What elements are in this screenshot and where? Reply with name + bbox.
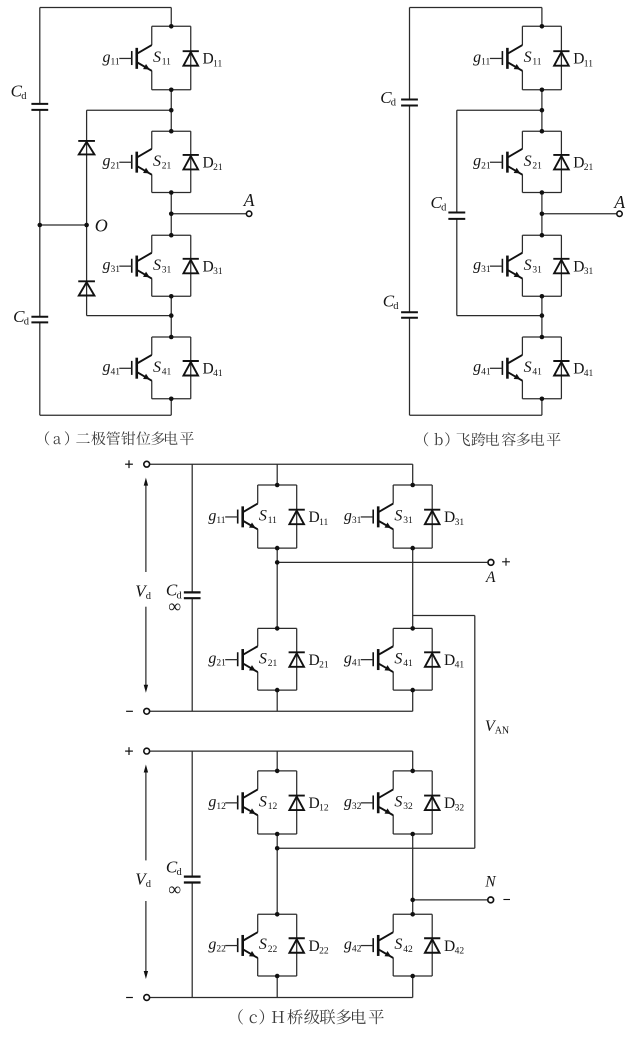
wire: (c) upper top rail: [149, 463, 412, 465]
svg-text:11: 11: [532, 58, 541, 68]
svg-text:D: D: [573, 154, 584, 171]
label infinity lower bridge: [168, 879, 181, 899]
wire: (b) top rail: [410, 7, 542, 9]
svg-text:S: S: [259, 508, 267, 525]
label S21: [259, 650, 278, 669]
diode D31: [424, 510, 440, 525]
svg-text:d: d: [441, 202, 447, 213]
caption (b): [424, 432, 561, 446]
svg-text:D: D: [444, 795, 455, 812]
transistor S41 (IGBT): [490, 355, 523, 381]
wire: module S32 frame: [393, 771, 432, 834]
svg-text:D: D: [203, 51, 214, 68]
label g12 gate: [208, 793, 226, 812]
diode clamp upper (a): [78, 141, 95, 155]
transistor S21 (IGBT): [490, 149, 523, 175]
label Cd flying (b): [431, 193, 448, 214]
label g11 gate: [208, 507, 225, 526]
svg-text:12: 12: [216, 802, 226, 812]
svg-text:41: 41: [352, 659, 362, 669]
node: S11 collector junction: [275, 483, 280, 488]
label g31 gate: [102, 257, 120, 276]
label + upper: [125, 460, 133, 468]
svg-text:A: A: [243, 190, 255, 210]
svg-text:g: g: [473, 49, 481, 66]
transistor S32 (IGBT): [361, 789, 394, 815]
transistor S11 (IGBT): [225, 504, 258, 530]
svg-text:D: D: [309, 795, 320, 812]
label A (c): [485, 569, 496, 586]
svg-text:D: D: [444, 938, 455, 955]
label g32 gate: [344, 793, 362, 812]
diode D42: [424, 938, 440, 953]
svg-text:g: g: [102, 153, 110, 170]
wire: module S11 frame: [258, 485, 297, 548]
node: S22 collector junction: [275, 912, 280, 917]
label - at N: [503, 899, 510, 901]
wire: (a) left DC bus: [39, 8, 41, 416]
node: S21 emitter junction: [540, 190, 545, 195]
node: upper-left midpoint junction: [275, 560, 280, 565]
svg-text:31: 31: [352, 516, 362, 526]
svg-text:41: 41: [110, 367, 120, 377]
node: S41 emitter junction: [410, 688, 415, 693]
transistor S12 (IGBT): [225, 789, 258, 815]
wire: (a) phase leg interconnects: [170, 8, 172, 416]
diode D11: [289, 510, 305, 525]
transistor S31 (IGBT): [361, 504, 394, 530]
wire: flying-capacitor branch vertical: [456, 110, 458, 315]
wire: (c) upper left leg interconnects: [276, 464, 278, 711]
transistor S31 (IGBT): [490, 253, 523, 279]
svg-text:42: 42: [455, 946, 465, 956]
svg-text:g: g: [344, 507, 352, 524]
capacitor Cd lower (a): [31, 317, 48, 323]
node: S21 collector junction: [275, 626, 280, 631]
svg-text:32: 32: [455, 804, 465, 814]
label Cd lower (a): [13, 307, 30, 328]
wire: flying branch top link: [457, 109, 542, 111]
svg-text:D: D: [573, 258, 584, 275]
capacitor Cd upper (a): [31, 104, 48, 110]
svg-text:21: 21: [319, 660, 329, 670]
svg-text:11: 11: [481, 57, 490, 67]
svg-text:21: 21: [481, 161, 491, 171]
label D21: [573, 154, 593, 173]
svg-text:D: D: [203, 258, 214, 275]
wire: (c) upper DC-link bus: [191, 464, 193, 711]
svg-text:g: g: [473, 257, 481, 274]
svg-text:21: 21: [268, 659, 278, 669]
svg-text:42: 42: [352, 945, 362, 955]
svg-text:d: d: [24, 317, 30, 328]
label g42 gate: [344, 936, 362, 955]
label S21: [153, 153, 172, 172]
label Cd lower (b): [383, 291, 400, 312]
wire: (b) bottom rail: [410, 414, 542, 416]
label S41: [394, 650, 413, 669]
label g31 gate: [473, 257, 491, 276]
diode D21: [183, 155, 199, 170]
label D32: [444, 795, 464, 814]
node: S21 collector junction: [540, 129, 545, 134]
svg-text:S: S: [153, 359, 161, 376]
transistor S22 (IGBT): [225, 932, 258, 958]
label g11 gate: [473, 49, 490, 68]
capacitor Cd lower bridge: [184, 877, 201, 883]
wire: (b) left DC bus: [409, 8, 411, 416]
svg-text:41: 41: [455, 660, 465, 670]
label D11: [309, 509, 329, 528]
wire: VAN link upper-right leg to lower bridge: [413, 616, 475, 849]
svg-text:21: 21: [532, 161, 542, 171]
diode D11: [183, 51, 199, 66]
node: O on clamp branch: [84, 223, 89, 228]
node: S42 emitter junction: [410, 974, 415, 979]
svg-text:21: 21: [216, 659, 226, 669]
diode D41: [424, 652, 440, 667]
transistor S31 (IGBT): [119, 253, 152, 279]
label D42: [444, 938, 464, 957]
svg-text:d: d: [393, 301, 399, 312]
label D21: [309, 652, 329, 671]
svg-text:21: 21: [162, 161, 172, 171]
label g22 gate: [208, 936, 226, 955]
node: S31 collector junction: [540, 233, 545, 238]
node: S41 collector junction: [410, 626, 415, 631]
svg-text:11: 11: [213, 59, 222, 69]
wire: module S21 frame: [258, 628, 297, 690]
svg-text:31: 31: [584, 267, 594, 277]
label S42: [394, 936, 413, 955]
svg-text:11: 11: [584, 59, 593, 69]
label D31: [573, 258, 593, 277]
wire: phase A output (a): [171, 213, 246, 215]
terminal - lower bridge: [144, 995, 150, 1001]
diode D31: [183, 259, 199, 274]
node: S32 emitter junction: [410, 832, 415, 837]
node: flying bottom junction: [540, 313, 545, 318]
wire: clamp top link: [87, 109, 172, 111]
label - upper: [126, 710, 133, 712]
svg-text:11: 11: [162, 58, 171, 68]
label S12: [259, 793, 278, 812]
svg-text:31: 31: [213, 267, 223, 277]
svg-text:31: 31: [532, 265, 542, 275]
wire: (c) lower-left leg midpoint link to VAN: [277, 847, 475, 849]
label Cd upper bridge: [166, 581, 183, 602]
svg-text:S: S: [394, 936, 402, 953]
capacitor Cd upper (b): [401, 100, 418, 106]
svg-text:S: S: [394, 508, 402, 525]
wire: flying branch bottom link: [457, 315, 542, 317]
svg-text:g: g: [473, 153, 481, 170]
node: S12 emitter junction: [275, 832, 280, 837]
svg-text:S: S: [524, 49, 532, 66]
svg-text:S: S: [524, 153, 532, 170]
node: S41 collector junction: [169, 335, 174, 340]
svg-text:41: 41: [213, 369, 223, 379]
label S32: [394, 793, 413, 812]
label D31: [203, 258, 223, 277]
terminal A (b): [617, 211, 622, 216]
wire: (c) lower DC-link bus: [191, 751, 193, 997]
svg-text:31: 31: [403, 516, 413, 526]
wire: (a) top rail: [40, 7, 171, 9]
label g41 gate: [102, 359, 120, 378]
label S11: [259, 508, 277, 527]
capacitor Cd upper bridge: [184, 592, 201, 598]
diode D32: [424, 796, 440, 811]
terminal A (a): [246, 211, 251, 216]
diode D11: [553, 51, 569, 66]
transistor S11 (IGBT): [490, 45, 523, 71]
label D41: [573, 361, 593, 380]
node: lower-left midpoint junction: [275, 846, 280, 851]
svg-text:g: g: [344, 936, 352, 953]
label g41 gate: [473, 359, 491, 378]
svg-text:22: 22: [216, 945, 226, 955]
node: S41 emitter junction: [540, 397, 545, 402]
diode D31: [553, 259, 569, 274]
node: S21 collector junction: [169, 129, 174, 134]
wire: clamp bottom link: [87, 315, 172, 317]
label g21 gate: [102, 153, 120, 172]
node: S31 emitter junction: [410, 546, 415, 551]
svg-text:41: 41: [162, 368, 172, 378]
svg-text:22: 22: [319, 946, 329, 956]
label S11: [153, 49, 171, 68]
node: S41 emitter junction: [169, 397, 174, 402]
svg-text:d: d: [391, 98, 397, 109]
svg-text:D: D: [573, 51, 584, 68]
node: N junction: [410, 898, 415, 903]
label g21 gate: [473, 153, 491, 172]
wire: (c) lower left leg interconnects: [276, 751, 278, 997]
wire: (c) lower right leg interconnects: [412, 751, 414, 997]
svg-text:12: 12: [319, 804, 329, 814]
transistor S21 (IGBT): [225, 646, 258, 672]
label + lower: [125, 747, 133, 755]
svg-text:g: g: [102, 49, 110, 66]
svg-text:S: S: [259, 793, 267, 810]
diode D21: [553, 155, 569, 170]
node: flying top junction: [540, 108, 545, 113]
transistor S42 (IGBT): [361, 932, 394, 958]
svg-text:g: g: [473, 359, 481, 376]
node: S21 emitter junction: [275, 688, 280, 693]
svg-text:S: S: [153, 257, 161, 274]
diode clamp lower (a): [78, 281, 95, 295]
wire: module S41 frame: [152, 337, 191, 399]
node: S11 emitter junction: [540, 88, 545, 93]
svg-text:d: d: [146, 591, 152, 602]
source arrow Vd lower: [144, 765, 148, 980]
label N: [484, 874, 497, 891]
label Vd upper: [135, 581, 152, 602]
svg-text:S: S: [259, 936, 267, 953]
label S31: [394, 508, 413, 527]
svg-text:D: D: [444, 652, 455, 669]
svg-text:21: 21: [213, 163, 223, 173]
wire: (a) bottom rail: [40, 414, 171, 416]
label infinity upper bridge: [168, 596, 181, 616]
node: clamp top junction: [169, 108, 174, 113]
label S31: [153, 257, 172, 276]
label - lower: [126, 997, 133, 999]
svg-text:21: 21: [584, 163, 594, 173]
diode D41: [183, 361, 199, 376]
wire: (c) lower bottom rail: [149, 997, 412, 999]
svg-text:g: g: [208, 936, 216, 953]
svg-text:A: A: [613, 192, 625, 212]
svg-text:N: N: [484, 874, 497, 891]
caption (c): [238, 1009, 384, 1024]
label Cd lower bridge: [166, 858, 183, 879]
svg-text:11: 11: [268, 516, 277, 526]
node: S12 collector junction: [275, 769, 280, 774]
svg-text:S: S: [524, 257, 532, 274]
wire: (c) upper bottom rail: [149, 710, 412, 712]
label S22: [259, 936, 278, 955]
svg-text:11: 11: [110, 57, 119, 67]
svg-text:g: g: [102, 257, 110, 274]
wire: module S31 frame: [393, 485, 432, 548]
label S21: [524, 153, 543, 172]
terminal A (c): [488, 560, 494, 566]
capacitor Cd lower (b): [401, 312, 418, 317]
svg-text:31: 31: [162, 265, 172, 275]
transistor S11 (IGBT): [119, 45, 152, 71]
svg-text:31: 31: [110, 265, 120, 275]
svg-text:D: D: [309, 652, 320, 669]
capacitor Cd flying (b): [448, 213, 465, 219]
node: S31 emitter junction: [540, 294, 545, 299]
svg-text:32: 32: [403, 802, 413, 812]
label S31: [524, 257, 543, 276]
node: S31 collector junction: [169, 233, 174, 238]
diode D41: [553, 361, 569, 376]
node: A junction (a): [169, 212, 174, 217]
svg-text:d: d: [177, 867, 183, 878]
wire: module S42 frame: [393, 914, 432, 976]
diode D22: [289, 938, 305, 953]
transistor S21 (IGBT): [119, 149, 152, 175]
wire: module S31 frame: [152, 235, 191, 296]
svg-text:32: 32: [352, 802, 362, 812]
svg-text:S: S: [524, 359, 532, 376]
label Vd lower: [135, 870, 152, 891]
label D21: [203, 154, 223, 173]
svg-text:g: g: [208, 793, 216, 810]
svg-text:D: D: [203, 154, 214, 171]
node: S21 emitter junction: [169, 190, 174, 195]
wire: neutral O link: [40, 224, 87, 226]
transistor S41 (IGBT): [119, 355, 152, 381]
wire: N output from lower-right leg: [413, 899, 488, 901]
svg-text:41: 41: [532, 368, 542, 378]
wire: module S41 frame: [522, 337, 561, 399]
svg-text:41: 41: [403, 659, 413, 669]
svg-text:41: 41: [584, 369, 594, 379]
svg-text:41: 41: [481, 367, 491, 377]
label g41 gate: [344, 650, 362, 669]
label D11: [573, 51, 593, 70]
node: S31 collector junction: [410, 483, 415, 488]
svg-text:g: g: [344, 793, 352, 810]
svg-text:S: S: [259, 650, 267, 667]
svg-text:D: D: [309, 938, 320, 955]
node: S11 emitter junction: [275, 546, 280, 551]
svg-text:11: 11: [216, 516, 225, 526]
wire: module S12 frame: [258, 771, 297, 834]
svg-text:D: D: [309, 509, 320, 526]
node: clamp bottom junction: [169, 313, 174, 318]
wire: module S22 frame: [258, 914, 297, 976]
wire: phase A output (b): [542, 213, 617, 215]
label D41: [203, 361, 223, 380]
svg-text:∞: ∞: [168, 596, 181, 616]
svg-text:A: A: [485, 569, 496, 586]
svg-text:S: S: [394, 650, 402, 667]
label + at A (c): [502, 558, 510, 566]
svg-text:d: d: [21, 91, 27, 102]
label Cd upper (b): [380, 88, 397, 109]
node: S32 collector junction: [410, 769, 415, 774]
label A (b): [613, 192, 625, 212]
svg-text:AN: AN: [495, 726, 509, 737]
svg-text:42: 42: [403, 945, 413, 955]
wire: (c) A output from upper-left leg midpoint: [277, 561, 487, 563]
wire: module S21 frame: [152, 131, 191, 192]
terminal + lower bridge: [144, 748, 150, 754]
wire: module S11 frame: [522, 26, 561, 90]
wire: clamp branch vertical: [86, 110, 88, 315]
svg-text:S: S: [153, 49, 161, 66]
node: A junction (b): [540, 212, 545, 217]
label S41: [153, 359, 172, 378]
label g11 gate: [102, 49, 119, 68]
label g21 gate: [208, 650, 226, 669]
wire: (c) lower top rail: [149, 750, 412, 752]
svg-text:D: D: [203, 361, 214, 378]
svg-text:S: S: [153, 153, 161, 170]
source arrow Vd upper: [144, 478, 148, 693]
label A (a): [243, 190, 255, 210]
node: S41 collector junction: [540, 335, 545, 340]
svg-text:11: 11: [319, 518, 328, 528]
svg-text:g: g: [208, 507, 216, 524]
svg-text:O: O: [95, 216, 108, 236]
label Cd upper (a): [11, 82, 28, 103]
terminal + upper bridge: [144, 461, 150, 467]
svg-text:g: g: [344, 650, 352, 667]
svg-text:31: 31: [481, 265, 491, 275]
svg-text:∞: ∞: [168, 879, 181, 899]
node: S11 collector junction: [169, 24, 174, 29]
svg-text:12: 12: [268, 802, 278, 812]
node: S22 emitter junction: [275, 974, 280, 979]
wire: (b) phase leg interconnects: [541, 8, 543, 416]
node: S31 emitter junction: [169, 294, 174, 299]
svg-text:g: g: [102, 359, 110, 376]
terminal - upper bridge: [144, 708, 150, 714]
transistor S41 (IGBT): [361, 646, 394, 672]
label S41: [524, 359, 543, 378]
svg-text:D: D: [573, 361, 584, 378]
wire: (c) upper right leg interconnects: [412, 464, 414, 711]
diode D21: [289, 652, 305, 667]
